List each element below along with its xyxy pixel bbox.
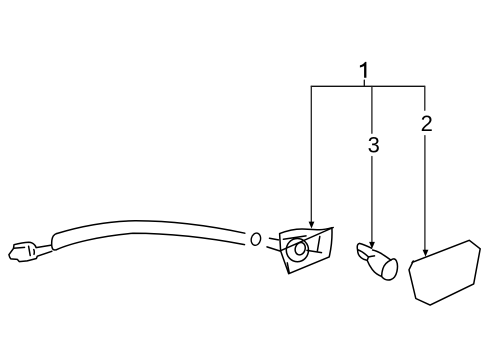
O-ring gasket xyxy=(250,232,262,246)
lens xyxy=(409,240,480,305)
leader arrow to socket xyxy=(310,86,312,222)
label 1 xyxy=(360,62,367,78)
bulb base seam xyxy=(358,250,369,261)
bulb dome arc xyxy=(382,259,398,280)
wire harness tube xyxy=(57,221,245,234)
connector body with neck xyxy=(9,242,52,261)
connector front edge xyxy=(14,246,25,249)
leader arrow to lens xyxy=(424,86,426,250)
bulb collar tick xyxy=(368,256,374,257)
socket rim line xyxy=(283,236,306,239)
svg-text:3: 3 xyxy=(368,133,380,158)
socket diagonal edge xyxy=(281,228,334,251)
bulb base outline xyxy=(357,243,371,260)
socket leader wires xyxy=(267,238,280,251)
svg-text:2: 2 xyxy=(421,111,433,136)
socket housing outline xyxy=(280,228,332,274)
bulb glass bottom xyxy=(367,260,381,276)
socket right line xyxy=(307,250,322,252)
socket bottom tick xyxy=(287,263,289,273)
bulb glass top xyxy=(373,250,391,260)
bracket for group 1 xyxy=(311,85,425,87)
connector face edge xyxy=(29,246,31,255)
connector small tick xyxy=(33,250,35,255)
bulb meridian xyxy=(382,260,391,276)
socket outer ring xyxy=(286,239,308,262)
harness end cap xyxy=(52,234,57,250)
leader from label 1 to bracket xyxy=(363,80,365,86)
socket right edge tick xyxy=(317,237,319,251)
socket inner ring xyxy=(294,241,307,256)
lens corner tab xyxy=(412,261,413,263)
leader arrow to bulb xyxy=(371,86,373,242)
